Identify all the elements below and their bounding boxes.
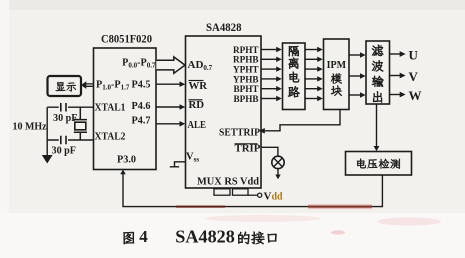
ground Vss	[170, 162, 186, 167]
wire BPHT to isolation	[261, 86, 282, 91]
svg-text:U: U	[409, 47, 419, 62]
wire filter to voltage detector	[374, 104, 380, 151]
ground symbol	[42, 155, 53, 164]
pink scan smudge 2	[377, 218, 441, 226]
svg-text:P4.5: P4.5	[132, 80, 151, 91]
svg-text:W: W	[409, 88, 422, 103]
svg-text:RPHB: RPHB	[233, 55, 259, 65]
wire IPM to filter phase U	[349, 52, 366, 57]
isolation circuit box 隔离电路	[283, 43, 306, 110]
svg-text:XTAL2: XTAL2	[95, 131, 126, 143]
pink scan smudge 1	[205, 215, 321, 222]
display module box 显示	[48, 76, 82, 96]
pin stub MUX	[214, 189, 230, 195]
crystal Y1	[74, 107, 87, 140]
svg-text:YPHT: YPHT	[233, 65, 259, 75]
wire IPM to filter phase V	[349, 73, 366, 78]
svg-text:MUX RS Vdd: MUX RS Vdd	[197, 177, 259, 188]
wire voltage detector to P3.0 feedback	[120, 170, 382, 207]
wire XTAL1 net	[47, 106, 93, 108]
svg-text:30 pF: 30 pF	[52, 146, 77, 157]
data bus arrow P0 to AD0.7	[156, 57, 185, 73]
svg-text:4: 4	[139, 227, 148, 246]
svg-text:P4.6: P4.6	[132, 101, 151, 112]
wire output phase W	[390, 92, 406, 98]
bidirectional bus arrow display-P1	[81, 81, 93, 89]
wire isolation to IPM row 6	[305, 96, 323, 101]
wire control P4.5-WR	[156, 81, 185, 87]
svg-text:C8051F020: C8051F020	[101, 34, 152, 46]
wire to Vdd terminal	[248, 194, 257, 196]
wire YPHT to isolation	[261, 66, 282, 71]
svg-text:SA4828: SA4828	[175, 226, 235, 246]
wire YPHB to isolation	[261, 76, 282, 81]
svg-text:30 pF: 30 pF	[53, 113, 78, 124]
svg-text:P3.0: P3.0	[117, 155, 136, 166]
svg-text:RD: RD	[189, 99, 205, 111]
wire RPHT to isolation	[261, 47, 282, 52]
svg-text:ALE: ALE	[188, 119, 207, 131]
wire XTAL2 net	[47, 139, 93, 141]
svg-text:P4.7: P4.7	[132, 116, 151, 127]
svg-text:Vdd: Vdd	[264, 191, 284, 203]
filter output box 滤波输出	[366, 41, 390, 104]
wire lamp to ground arrow	[275, 169, 280, 180]
red pen artifact on feedback wire (right)	[308, 204, 372, 209]
wire control P4.6-RD	[156, 104, 185, 110]
voltage detector box 电压检测	[346, 152, 412, 176]
svg-text:YPHB: YPHB	[233, 74, 259, 84]
pin stub RS	[233, 189, 249, 195]
wire isolation to IPM row 3	[305, 66, 323, 71]
svg-text:WR: WR	[189, 80, 208, 92]
svg-text:XTAL1: XTAL1	[95, 102, 126, 114]
pink scan smudge 3	[331, 230, 345, 234]
svg-text:V: V	[409, 69, 419, 84]
wire IPM fault to SETTRIP	[259, 110, 340, 134]
wire control P4.7-ALE	[156, 121, 185, 127]
svg-text:BPHT: BPHT	[233, 84, 258, 94]
wire RPHB to isolation	[261, 57, 282, 62]
wire BPHB to isolation	[261, 96, 282, 101]
capacitor C2 30pF	[61, 136, 66, 145]
wire output phase V	[390, 73, 406, 79]
wire isolation to IPM row 4	[305, 76, 323, 81]
wire isolation to IPM row 5	[305, 86, 323, 91]
svg-text:BPHB: BPHB	[233, 94, 258, 104]
lamp DS1 (circle-X)	[272, 156, 284, 168]
SA4828 IC U2 box	[186, 36, 262, 188]
svg-text:SA4828: SA4828	[206, 22, 242, 34]
terminal Vdd	[258, 193, 262, 197]
svg-text:SETTRIP: SETTRIP	[219, 128, 260, 139]
red pen artifact on feedback wire (left)	[176, 206, 225, 208]
wire isolation to IPM row 2	[305, 57, 323, 62]
svg-text:10 MHz: 10 MHz	[13, 122, 47, 133]
wire isolation to IPM row 1	[305, 47, 323, 52]
wire oscillator ground rail	[46, 107, 48, 155]
microcontroller U1 C8051F020 box	[94, 48, 157, 170]
svg-text:RPHT: RPHT	[233, 45, 259, 55]
wire IPM to filter phase W	[349, 92, 366, 97]
IPM module box IPM模块	[324, 39, 350, 110]
capacitor C1 30pF	[61, 103, 66, 112]
wire TRIP to lamp	[261, 147, 278, 156]
wire output phase U	[390, 51, 406, 57]
caption 图 4	[123, 232, 134, 244]
svg-text:IPM: IPM	[327, 60, 347, 71]
